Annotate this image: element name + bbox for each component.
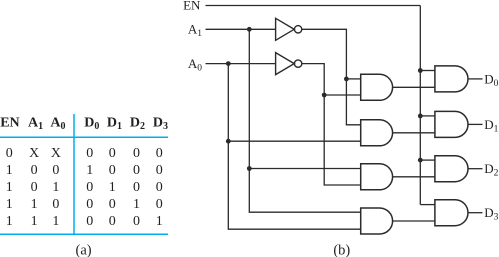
wire U1 output branch to G1 top input	[346, 78, 360, 80]
AND gate G1	[361, 74, 393, 100]
svg-text:X: X	[51, 145, 61, 160]
svg-text:0: 0	[31, 163, 38, 178]
svg-text:0: 0	[156, 180, 163, 195]
wire A0 vertical branch to G4 bottom input	[228, 64, 360, 230]
inverter U1	[276, 18, 302, 40]
svg-text:1: 1	[31, 214, 38, 229]
svg-text:EN: EN	[0, 115, 19, 130]
wire EN horizontal	[206, 5, 421, 7]
svg-text:1: 1	[133, 197, 140, 212]
wire EN to U4 top input	[420, 115, 435, 117]
svg-text:1: 1	[6, 180, 13, 195]
AND gate G4	[361, 208, 393, 234]
wire A0 to inverter U2	[206, 63, 276, 65]
AND gate G2	[361, 120, 393, 146]
wire U2 output branch to G1 bottom input	[324, 94, 361, 96]
svg-text:0: 0	[156, 146, 163, 161]
wire U2 output to G3 bottom input	[302, 64, 361, 185]
wire U4 output to D1	[468, 123, 483, 125]
wire G4 output to U6	[393, 220, 435, 222]
svg-text:0: 0	[109, 197, 116, 212]
inverter U2	[276, 53, 302, 75]
junction A1 to G3	[247, 166, 252, 171]
wire EN vertical	[419, 6, 421, 205]
wire U3 output to D0	[468, 78, 483, 80]
svg-text:A1: A1	[28, 115, 43, 132]
svg-text:D3: D3	[484, 205, 498, 223]
svg-text:0: 0	[133, 146, 140, 161]
svg-text:D2: D2	[130, 115, 145, 132]
junction EN to U3	[418, 68, 423, 73]
AND gate U3	[435, 66, 468, 92]
svg-text:1: 1	[52, 214, 59, 229]
svg-text:D3: D3	[153, 115, 168, 132]
wire G1 output to U3	[393, 86, 435, 88]
wire EN to U5 top input	[420, 159, 435, 161]
svg-text:D1: D1	[107, 115, 122, 132]
AND gate U6	[435, 200, 468, 226]
junction A0 line	[226, 61, 231, 66]
svg-text:0: 0	[31, 180, 38, 195]
svg-text:1: 1	[156, 214, 163, 229]
svg-text:(b): (b)	[333, 243, 350, 257]
svg-text:0: 0	[109, 214, 116, 229]
svg-text:D1: D1	[484, 117, 498, 135]
svg-text:(a): (a)	[76, 243, 92, 257]
table header underline	[0, 136, 168, 138]
svg-text:0: 0	[133, 180, 140, 195]
svg-text:0: 0	[52, 197, 59, 212]
svg-text:0: 0	[86, 214, 93, 229]
AND gate U4	[435, 111, 468, 137]
junction U2 out to G1	[322, 93, 327, 98]
table bottom rule	[0, 233, 168, 235]
svg-text:A1: A1	[188, 22, 202, 40]
junction EN to U5	[418, 158, 423, 163]
svg-text:0: 0	[156, 163, 163, 178]
svg-text:0: 0	[86, 197, 93, 212]
svg-text:0: 0	[133, 163, 140, 178]
svg-text:1: 1	[86, 163, 93, 178]
svg-text:EN: EN	[183, 0, 201, 12]
table data rows	[6, 145, 163, 229]
svg-text:1: 1	[52, 180, 59, 195]
svg-text:A0: A0	[188, 56, 202, 74]
wire U1 output to G2 top input	[302, 29, 361, 125]
junction U1 out to G1	[344, 77, 349, 82]
junction EN to U4	[418, 114, 423, 119]
svg-text:0: 0	[86, 146, 93, 161]
table column separator	[73, 114, 75, 234]
junction A1 line	[247, 27, 252, 32]
wire A0 to G2 bottom input	[228, 140, 360, 142]
svg-text:D0: D0	[84, 115, 99, 132]
wire U5 output to D2	[468, 168, 483, 170]
svg-text:1: 1	[6, 197, 13, 212]
svg-text:1: 1	[6, 163, 13, 178]
junction A0 to G2	[226, 139, 231, 144]
svg-text:X: X	[29, 145, 39, 160]
AND gate G3	[361, 164, 393, 190]
svg-text:D2: D2	[484, 161, 498, 179]
table header	[0, 115, 168, 132]
wire EN to U6 top input	[420, 204, 435, 206]
AND gate U5	[435, 156, 468, 182]
svg-text:1: 1	[31, 197, 38, 212]
svg-text:0: 0	[109, 163, 116, 178]
svg-text:0: 0	[109, 146, 116, 161]
svg-text:1: 1	[109, 180, 116, 195]
svg-text:D0: D0	[484, 71, 498, 89]
wire G3 output to U5	[393, 176, 435, 178]
wire A1 to inverter U1	[206, 28, 276, 30]
wire A1 to G3 top input	[249, 168, 360, 170]
wire EN to U3 top input	[420, 70, 435, 72]
svg-text:0: 0	[52, 163, 59, 178]
svg-text:1: 1	[6, 214, 13, 229]
svg-text:0: 0	[86, 180, 93, 195]
wire A1 vertical branch to G4 top input	[249, 29, 360, 212]
svg-text:0: 0	[6, 146, 13, 161]
wire G2 output to U4	[393, 132, 435, 134]
svg-text:0: 0	[133, 214, 140, 229]
svg-text:0: 0	[156, 197, 163, 212]
wire U6 output to D3	[468, 212, 483, 214]
svg-text:A0: A0	[50, 115, 65, 132]
